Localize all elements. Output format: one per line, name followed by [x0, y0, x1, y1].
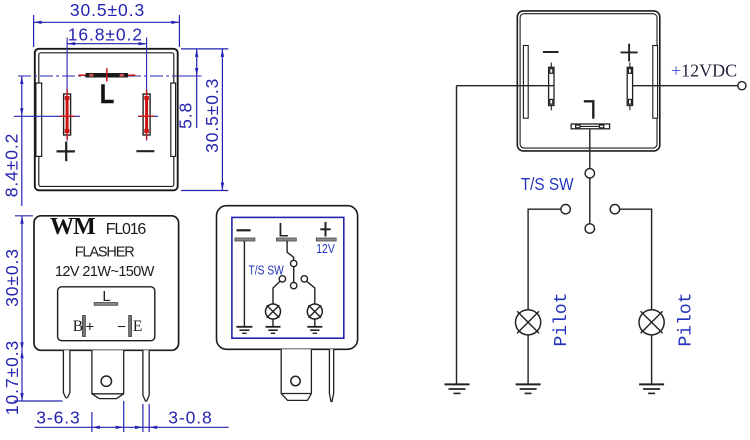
svg-text:E: E	[133, 318, 142, 335]
svg-text:FL016: FL016	[106, 221, 147, 238]
svg-text:−: −	[117, 319, 126, 336]
svg-text:3-6.3: 3-6.3	[36, 408, 80, 428]
svg-text:WM: WM	[50, 214, 96, 240]
svg-text:+: +	[86, 319, 95, 336]
svg-text:B: B	[73, 318, 83, 335]
svg-text:+12VDC: +12VDC	[671, 60, 737, 80]
svg-text:30±0.3: 30±0.3	[2, 248, 22, 307]
svg-text:30.5±0.3: 30.5±0.3	[202, 78, 222, 153]
svg-text:8.4±0.2: 8.4±0.2	[2, 133, 22, 198]
svg-text:Pilot: Pilot	[676, 292, 696, 346]
svg-text:30.5±0.3: 30.5±0.3	[70, 0, 145, 20]
svg-text:10.7±0.3: 10.7±0.3	[2, 340, 22, 415]
svg-text:T/S SW: T/S SW	[521, 175, 574, 194]
svg-text:16.8±0.2: 16.8±0.2	[68, 25, 143, 45]
svg-text:5.8: 5.8	[176, 102, 196, 129]
svg-text:12V: 12V	[316, 242, 335, 256]
svg-text:FLASHER: FLASHER	[75, 245, 135, 261]
svg-text:3-0.8: 3-0.8	[168, 408, 212, 428]
svg-text:12V 21W~150W: 12V 21W~150W	[55, 264, 155, 280]
svg-text:Pilot: Pilot	[552, 292, 572, 346]
svg-text:T/S SW: T/S SW	[249, 264, 284, 278]
